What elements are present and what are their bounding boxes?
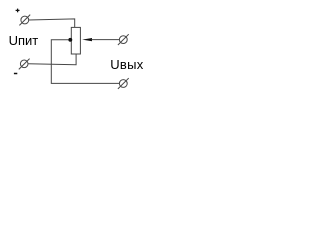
terminal X1 (+ input): [21, 16, 29, 24]
wire: - terminal to bottom of potentiometer: [28, 54, 76, 65]
plus sign: [16, 9, 20, 11]
terminal X3 (+ output): [119, 36, 127, 44]
potentiometer R body: [71, 27, 80, 54]
wiper arrow: [82, 38, 92, 41]
wire: + terminal to top of potentiometer: [29, 19, 75, 28]
wiper contact dot: [68, 38, 72, 42]
wire: wiper to bottom output rail: [51, 40, 119, 84]
svg-text:Uпит: Uпит: [9, 33, 39, 48]
wire: arrow to + output terminal: [92, 39, 120, 41]
terminal X4 (- output): [119, 80, 127, 88]
terminal X2 (- input): [20, 60, 28, 68]
minus sign: [14, 73, 17, 75]
svg-text:Uвых: Uвых: [110, 57, 144, 72]
